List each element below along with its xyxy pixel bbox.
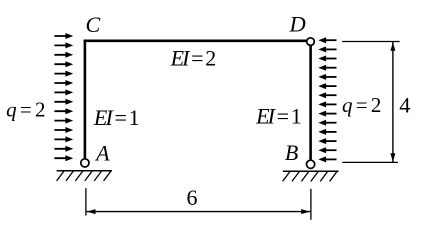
distributed load q=2 on left column (arrows pointing right) <box>54 36 70 158</box>
dimension 4: bottom arrowhead <box>390 153 395 162</box>
svg-text:EI = 1: EI = 1 <box>255 103 301 128</box>
dimension 6: right extension line <box>310 189 312 220</box>
distributed load q=2 on right column (arrows pointing left) <box>326 40 337 159</box>
pin support A: ground hatching <box>57 171 111 181</box>
svg-text:B: B <box>285 140 298 165</box>
pin support B: ground hatching <box>283 172 337 182</box>
svg-text:6: 6 <box>187 185 198 210</box>
svg-text:q = 2: q = 2 <box>6 98 45 122</box>
dimension 4: dimension line <box>392 42 394 162</box>
svg-text:EI = 2: EI = 2 <box>170 46 216 71</box>
dimension 6: dimension line <box>87 211 311 213</box>
dimension 4: bottom extension line <box>342 161 398 163</box>
svg-text:C: C <box>86 12 101 37</box>
pin support B: ground line <box>283 170 339 172</box>
svg-text:q = 2: q = 2 <box>342 93 381 117</box>
svg-text:D: D <box>288 12 305 37</box>
pin support B: hinge circle <box>307 160 315 168</box>
dimension 6: right arrowhead <box>301 209 310 214</box>
pin support A: hinge circle <box>81 159 89 167</box>
svg-text:4: 4 <box>399 92 410 117</box>
svg-text:EI = 1: EI = 1 <box>93 105 139 130</box>
dimension 6: left extension line <box>85 188 87 215</box>
hinge at D <box>307 38 315 46</box>
dimension 6: left arrowhead <box>87 209 96 214</box>
pin support A: ground line <box>57 170 112 172</box>
svg-text:A: A <box>94 140 110 165</box>
dimension 4: top arrowhead <box>390 42 395 51</box>
column BD (right, EI=1 member) <box>309 45 312 160</box>
dimension 4: top extension line <box>342 41 400 43</box>
column AC (left, EI=1 member) <box>84 40 87 159</box>
beam CD (EI=2 member) <box>84 39 307 42</box>
